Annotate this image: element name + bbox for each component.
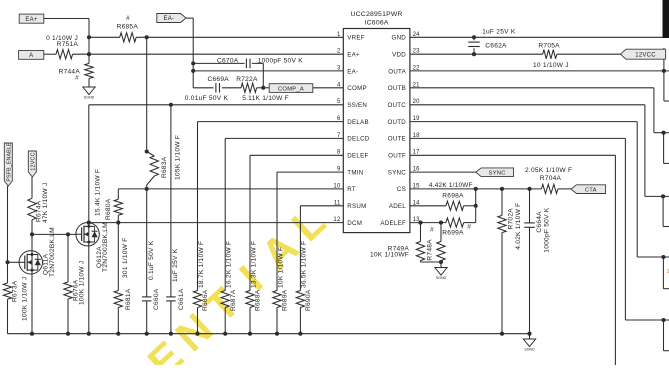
ground SGND below C664A bbox=[523, 339, 535, 347]
svg-text:R687A: R687A bbox=[230, 289, 237, 311]
wire SYNC line pin 16 bbox=[410, 171, 476, 173]
wire R680A column bbox=[117, 189, 119, 199]
svg-text:13.3K 1/10W F: 13.3K 1/10W F bbox=[250, 241, 257, 288]
svg-text:18: 18 bbox=[413, 133, 421, 139]
svg-text:1: 1 bbox=[337, 32, 341, 38]
net A bbox=[19, 51, 44, 60]
svg-text:OUTE: OUTE bbox=[388, 136, 406, 143]
svg-text:A: A bbox=[29, 53, 33, 59]
svg-text:10K 1/10WF: 10K 1/10WF bbox=[370, 251, 409, 258]
wire ADELEF line pin 13 bbox=[410, 222, 446, 224]
wire OUTA stub exit bbox=[664, 100, 669, 102]
svg-text:EA-: EA- bbox=[347, 68, 358, 75]
svg-text:12VCC: 12VCC bbox=[635, 52, 656, 58]
wire OUTD feeder bbox=[637, 256, 669, 258]
svg-text:15: 15 bbox=[413, 183, 421, 189]
svg-text:VREF: VREF bbox=[347, 35, 365, 42]
svg-text:5.11K 1/10W F: 5.11K 1/10W F bbox=[242, 95, 289, 102]
wire R674A to Q611A drain node bbox=[31, 220, 33, 255]
svg-text:22: 22 bbox=[413, 66, 421, 72]
node EA+ line junction bbox=[87, 52, 91, 56]
capacitor C660A bbox=[142, 296, 152, 298]
wire OUTC line pin 20 bbox=[410, 104, 645, 106]
resistor R680A bbox=[114, 199, 122, 215]
svg-text:3: 3 bbox=[337, 66, 341, 72]
wire VREF to R683A chain bbox=[146, 37, 148, 151]
node ADELEF pin13 bbox=[418, 221, 422, 225]
net 12VCC left bbox=[28, 151, 36, 177]
svg-text:105K 1/10W F: 105K 1/10W F bbox=[174, 135, 181, 180]
capacitor C669A bbox=[215, 83, 217, 93]
ground SGND under R744A bbox=[83, 87, 95, 95]
svg-text:#: # bbox=[467, 224, 471, 231]
transistor Q612A bbox=[76, 223, 99, 246]
resistor R748A bbox=[437, 241, 445, 260]
wire Q612A gate link bbox=[32, 233, 76, 235]
svg-text:17: 17 bbox=[413, 150, 421, 156]
wire OUTE stub exit bbox=[664, 350, 669, 352]
node rail Q611A bbox=[30, 332, 34, 336]
node ADELEF R748A tap bbox=[439, 221, 443, 225]
wire PSFB_ENABLE drop bbox=[7, 186, 9, 262]
svg-text:DELCD: DELCD bbox=[347, 136, 370, 143]
svg-text:6: 6 bbox=[337, 116, 341, 122]
wire OUTC stub exit bbox=[663, 226, 669, 228]
svg-text:SGND: SGND bbox=[436, 276, 447, 280]
svg-text:TMIN: TMIN bbox=[347, 169, 363, 176]
svg-text:R689A: R689A bbox=[282, 289, 289, 311]
resistor R698A bbox=[446, 201, 464, 210]
node RT/R683A junction bbox=[145, 187, 149, 191]
resistor R683A bbox=[150, 156, 158, 176]
svg-text:19: 19 bbox=[413, 116, 421, 122]
wire RT line pin 10 bbox=[118, 188, 343, 190]
svg-text:16: 16 bbox=[413, 167, 421, 173]
node GND/C662A bbox=[472, 35, 476, 39]
resistor R689A bbox=[273, 291, 281, 308]
svg-text:R688A: R688A bbox=[255, 289, 262, 311]
svg-text:C670A: C670A bbox=[217, 58, 239, 65]
capacitor C661A bbox=[166, 296, 176, 298]
svg-text:1000pF 50V K: 1000pF 50V K bbox=[258, 58, 304, 65]
node rail Q612A bbox=[87, 332, 91, 336]
node rail R681A bbox=[116, 332, 120, 336]
svg-text:#: # bbox=[75, 74, 79, 81]
svg-text:R704A: R704A bbox=[540, 175, 562, 182]
svg-text:20: 20 bbox=[413, 99, 421, 105]
wire VDD line pin 23 bbox=[410, 53, 543, 55]
net 12VCC right bbox=[621, 49, 666, 59]
svg-text:C660A: C660A bbox=[153, 288, 160, 310]
svg-text:14: 14 bbox=[413, 200, 421, 206]
svg-text:R751A: R751A bbox=[57, 41, 79, 48]
svg-text:5: 5 bbox=[337, 99, 341, 105]
svg-text:SGND: SGND bbox=[84, 95, 95, 99]
svg-text:DELAB: DELAB bbox=[347, 119, 369, 126]
svg-text:VDD: VDD bbox=[392, 51, 406, 58]
svg-text:8: 8 bbox=[337, 150, 341, 156]
wire DELEF line pin 8 bbox=[250, 154, 343, 156]
svg-text:R702A: R702A bbox=[507, 208, 514, 230]
net CTA bbox=[571, 185, 606, 194]
svg-text:OUTA: OUTA bbox=[388, 68, 406, 75]
node R748A/R749A bottom bbox=[439, 260, 443, 264]
svg-text:C669A: C669A bbox=[208, 76, 230, 83]
svg-text:10: 10 bbox=[333, 183, 341, 189]
wire DELCD line pin 7 bbox=[225, 137, 343, 139]
svg-text:0.01uF 50V K: 0.01uF 50V K bbox=[185, 95, 229, 102]
wire R749A column bbox=[420, 223, 422, 242]
wire OUTB feeder bbox=[654, 132, 669, 134]
svg-text:COMP: COMP bbox=[347, 85, 367, 92]
svg-text:R681A: R681A bbox=[125, 288, 132, 310]
svg-text:OUTD: OUTD bbox=[387, 119, 406, 126]
wire EA- flag stub bbox=[186, 17, 193, 19]
wire Q612A source to rail bbox=[88, 242, 90, 334]
svg-text:R690A: R690A bbox=[305, 289, 312, 311]
node rail R689A bbox=[275, 332, 279, 336]
resistor R685A bbox=[120, 33, 137, 42]
resistor R687A bbox=[221, 291, 229, 308]
wire OUTA vertical bbox=[663, 48, 665, 101]
wire OUTB line pin 21 bbox=[410, 87, 654, 89]
svg-text:EA+: EA+ bbox=[347, 51, 360, 58]
ground SGND below R748A bbox=[435, 268, 447, 276]
svg-text:EA-: EA- bbox=[164, 16, 175, 22]
node EA- line tap bbox=[191, 69, 195, 73]
wire C662A column bbox=[473, 37, 475, 40]
svg-text:SGND: SGND bbox=[524, 347, 535, 351]
capacitor C662A bbox=[468, 41, 480, 43]
wire C670A branch bbox=[193, 62, 244, 64]
node R683A top bbox=[145, 149, 149, 153]
wire RT junction to C660A bbox=[146, 189, 148, 297]
resistor R749A bbox=[416, 241, 424, 260]
wire OUTB hook vertical bbox=[663, 133, 665, 164]
svg-text:DELEF: DELEF bbox=[347, 153, 368, 160]
svg-text:100K 1/10W J: 100K 1/10W J bbox=[79, 261, 86, 305]
svg-text:7: 7 bbox=[337, 133, 341, 139]
wire EA- vertical drop bbox=[192, 18, 194, 88]
wire R673A column bbox=[7, 262, 9, 283]
svg-text:OUTF: OUTF bbox=[388, 153, 406, 160]
svg-text:1uF 25V K: 1uF 25V K bbox=[172, 248, 179, 282]
transistor Q611A bbox=[19, 251, 42, 274]
node rail C661A bbox=[169, 332, 173, 336]
node rail R702A bbox=[500, 332, 504, 336]
node rail R686A bbox=[195, 332, 199, 336]
svg-text:301 1/10W F: 301 1/10W F bbox=[122, 238, 129, 279]
svg-text:C664A: C664A bbox=[536, 211, 543, 233]
resistor R688A bbox=[246, 291, 254, 308]
svg-text:47K 1/10W J: 47K 1/10W J bbox=[42, 183, 49, 224]
wire OUTB hook down bbox=[653, 88, 655, 133]
svg-text:COMP_A: COMP_A bbox=[278, 86, 304, 92]
wire OUTD hook vertical bbox=[662, 257, 664, 289]
connector block top right bbox=[663, 0, 669, 38]
wire GND line pin 24 bbox=[410, 36, 666, 38]
resistor R702A bbox=[498, 215, 506, 232]
svg-text:4.02K 1/10W F: 4.02K 1/10W F bbox=[515, 203, 522, 250]
node EA- C670A tap bbox=[191, 61, 195, 65]
wire SGND stub below R748A bbox=[440, 262, 442, 268]
resistor R704A bbox=[541, 184, 558, 193]
svg-text:#: # bbox=[126, 15, 130, 22]
node PSFB gate tap bbox=[5, 260, 9, 264]
svg-text:21: 21 bbox=[413, 82, 421, 88]
svg-text:R680A: R680A bbox=[105, 198, 112, 220]
wire R702A column bbox=[501, 189, 503, 216]
wire COMP line pin 4 bbox=[193, 87, 213, 89]
svg-text:R722A: R722A bbox=[236, 76, 258, 83]
svg-text:24: 24 bbox=[413, 32, 421, 38]
svg-text:RT: RT bbox=[347, 186, 356, 193]
svg-text:4: 4 bbox=[337, 82, 341, 88]
wire OUTF vertical to edge bbox=[614, 155, 616, 365]
net COMP_A bbox=[269, 84, 313, 93]
svg-text:16.2K 1/10W F: 16.2K 1/10W F bbox=[226, 241, 233, 288]
net PSFB_ENABLE bbox=[4, 143, 12, 186]
resistor R722A bbox=[241, 83, 257, 92]
wire ADEL/ADELEF to CS vertical bbox=[475, 189, 477, 223]
node OUTA edge bbox=[662, 69, 666, 73]
wire Q611A source to rail bbox=[31, 270, 33, 334]
svg-text:ADELEF: ADELEF bbox=[380, 220, 406, 227]
op-amp U1 IC606A UCC28951PWR box bbox=[343, 29, 410, 233]
svg-text:R748A: R748A bbox=[426, 239, 433, 261]
wire EA- line pin 3 bbox=[193, 70, 343, 72]
wire OUTA line pin 22 bbox=[410, 70, 669, 72]
svg-text:R686A: R686A bbox=[202, 289, 209, 311]
wire OUTF line pin 17 bbox=[410, 154, 616, 156]
node rail R676A bbox=[66, 332, 70, 336]
svg-text:10 1/10W J: 10 1/10W J bbox=[533, 62, 569, 69]
svg-text:EA+: EA+ bbox=[25, 17, 38, 23]
resistor R690A bbox=[296, 291, 304, 308]
svg-text:100K 1/10W J: 100K 1/10W J bbox=[22, 277, 29, 321]
wire SS/EN line pin 5 bbox=[89, 104, 343, 106]
wire R689A column bbox=[276, 172, 278, 290]
wire C670A right drop bbox=[262, 63, 264, 87]
svg-text:2.05K 1/10W F: 2.05K 1/10W F bbox=[525, 167, 572, 174]
svg-text:CTA: CTA bbox=[585, 187, 597, 193]
resistor R751A bbox=[56, 50, 73, 59]
svg-text:R673A: R673A bbox=[12, 280, 19, 302]
svg-text:CS: CS bbox=[397, 186, 406, 193]
svg-text:12VCC: 12VCC bbox=[31, 152, 37, 170]
wire Q611A gate link bbox=[8, 261, 20, 263]
wire OUTE hook down bbox=[624, 138, 626, 320]
wire CS line pin 15 bbox=[410, 188, 542, 190]
svg-text:15.4K 1/10W F: 15.4K 1/10W F bbox=[95, 169, 102, 216]
node COMP feedback junction bbox=[261, 86, 265, 90]
wire C661A column bbox=[170, 105, 172, 297]
svg-text:12: 12 bbox=[333, 217, 341, 223]
net SYNC bbox=[476, 168, 514, 177]
svg-text:4.42K 1/10WF: 4.42K 1/10WF bbox=[429, 182, 473, 189]
wire OUTD stub exit bbox=[663, 288, 669, 290]
wire DCM line pin 12 bbox=[89, 222, 343, 224]
svg-text:R698A: R698A bbox=[442, 193, 464, 200]
svg-text:RSUM: RSUM bbox=[347, 203, 366, 210]
svg-text:C661A: C661A bbox=[178, 288, 185, 310]
svg-text:PSFB_ENABLE: PSFB_ENABLE bbox=[7, 142, 13, 181]
wire VREF line pin 1 bbox=[89, 36, 120, 38]
wire R676A column bbox=[67, 234, 69, 282]
wire 12VCC drop to R674A bbox=[31, 177, 33, 198]
wire TMIN line pin 9 bbox=[277, 171, 343, 173]
wire OUTD hook down bbox=[636, 122, 638, 257]
node OUTB edge bbox=[662, 131, 666, 135]
svg-text:#: # bbox=[430, 227, 434, 234]
svg-text:1uF 25V K: 1uF 25V K bbox=[482, 29, 516, 36]
svg-text:SYNC: SYNC bbox=[489, 170, 506, 176]
node CS/R702A bbox=[500, 187, 504, 191]
wire vertical EA+ node down to R744A bbox=[88, 19, 90, 64]
wire R748A/R749A bottom link bbox=[421, 261, 442, 263]
svg-text:1000pF 50V K: 1000pF 50V K bbox=[544, 207, 551, 253]
wire EA+ flag to node bbox=[44, 18, 89, 20]
svg-text:SS/EN: SS/EN bbox=[347, 102, 367, 109]
node OUTC edge bbox=[661, 194, 665, 198]
wire RSUM line pin 11 bbox=[300, 205, 343, 207]
svg-text:GND: GND bbox=[392, 35, 407, 42]
svg-text:OUTC: OUTC bbox=[387, 102, 406, 109]
node DCM/Q612A drain bbox=[87, 221, 91, 225]
node rail R690A bbox=[298, 332, 302, 336]
capacitor C670A bbox=[245, 59, 247, 69]
svg-text:36.5K 1/10W F: 36.5K 1/10W F bbox=[301, 241, 308, 288]
svg-text:9: 9 bbox=[337, 167, 341, 173]
wire R683A to RT line bbox=[147, 176, 155, 185]
node rail C664A bbox=[527, 332, 531, 336]
node rail C660A bbox=[145, 332, 149, 336]
node R674A/Q611A drain bbox=[30, 232, 34, 236]
svg-text:23: 23 bbox=[413, 49, 421, 55]
node CS/R698A vertical bbox=[474, 187, 478, 191]
svg-text:C662A: C662A bbox=[485, 43, 507, 50]
wire R690A column bbox=[299, 206, 301, 291]
wire EA+ line pin 2 bbox=[44, 53, 56, 55]
wire OUTE hook vertical bbox=[663, 320, 665, 351]
svg-text:OUTB: OUTB bbox=[388, 85, 406, 92]
node R680A/R681A junction bbox=[116, 221, 120, 225]
resistor R681A bbox=[114, 291, 122, 308]
svg-text:2: 2 bbox=[337, 49, 341, 55]
node R676A gate tap bbox=[66, 232, 70, 236]
wire R686A column bbox=[197, 122, 199, 291]
capacitor C664A bbox=[524, 222, 535, 224]
wire OUTE line pin 18 bbox=[410, 137, 626, 139]
svg-text:IC606A: IC606A bbox=[365, 20, 389, 27]
wire OUTC hook down bbox=[644, 105, 646, 197]
svg-text:11: 11 bbox=[334, 200, 341, 206]
resistor R744A bbox=[85, 63, 93, 78]
wire DELAB line pin 6 bbox=[198, 121, 344, 123]
node rail R687A bbox=[223, 332, 227, 336]
resistor R674A bbox=[28, 198, 36, 220]
node OUTE edge bbox=[661, 318, 665, 322]
svg-text:0.1uF 50V K: 0.1uF 50V K bbox=[148, 240, 155, 280]
resistor R673A bbox=[3, 283, 11, 299]
node rail R688A bbox=[248, 332, 252, 336]
wire R688A column bbox=[249, 155, 251, 290]
node SS/EN C661A tap bbox=[169, 103, 173, 107]
svg-text:R685A: R685A bbox=[117, 23, 139, 30]
svg-text:T2N7002BK,LM: T2N7002BK,LM bbox=[49, 227, 56, 277]
svg-text:SYNC: SYNC bbox=[388, 169, 406, 176]
wire SGND stub below R744A bbox=[88, 79, 90, 88]
wire OUTC hook vertical bbox=[662, 196, 664, 226]
svg-text:18.7K 1/10W F: 18.7K 1/10W F bbox=[198, 241, 205, 288]
resistor R699A bbox=[446, 218, 464, 227]
wire ADEL line pin 14 bbox=[410, 205, 446, 207]
node ADEL junction bbox=[474, 204, 478, 208]
svg-text:ADEL: ADEL bbox=[389, 203, 406, 210]
node VDD/C662A bbox=[472, 52, 476, 56]
net EA+ bbox=[19, 14, 44, 23]
resistor R705A bbox=[543, 50, 557, 59]
svg-text:10K 1/10W F: 10K 1/10W F bbox=[277, 247, 284, 288]
svg-text:R683A: R683A bbox=[161, 156, 168, 178]
wire OUTE feeder bbox=[625, 319, 669, 321]
wire OUTC feeder bbox=[645, 195, 669, 197]
svg-text:R705A: R705A bbox=[538, 43, 560, 50]
wire R748A column bbox=[440, 223, 442, 242]
svg-text:T2N7002BK,LM: T2N7002BK,LM bbox=[102, 222, 109, 272]
svg-text:UCC28951PWR: UCC28951PWR bbox=[350, 11, 402, 18]
svg-text:R699A: R699A bbox=[442, 230, 464, 237]
net EA- bbox=[157, 14, 186, 23]
node R685A right junction bbox=[145, 35, 149, 39]
node EA+/VREF junction bbox=[87, 35, 91, 39]
wire ground rail bbox=[8, 333, 530, 335]
wire C664A column bbox=[529, 189, 531, 223]
wire SS/EN drop to Q612A drain bbox=[88, 105, 90, 227]
resistor R686A bbox=[193, 291, 201, 308]
svg-text:0 1/10W J: 0 1/10W J bbox=[46, 35, 78, 42]
wire OUTD line pin 19 bbox=[410, 121, 637, 123]
svg-text:DCM: DCM bbox=[347, 220, 362, 227]
wire OUTB stub exit bbox=[664, 162, 669, 164]
wire R681A column bbox=[117, 223, 119, 291]
node OUTD edge bbox=[661, 255, 665, 259]
wire SGND stub below C664A bbox=[529, 334, 531, 339]
node CS/C664A bbox=[527, 187, 531, 191]
wire R687A column bbox=[224, 138, 226, 290]
resistor R676A bbox=[64, 282, 72, 299]
